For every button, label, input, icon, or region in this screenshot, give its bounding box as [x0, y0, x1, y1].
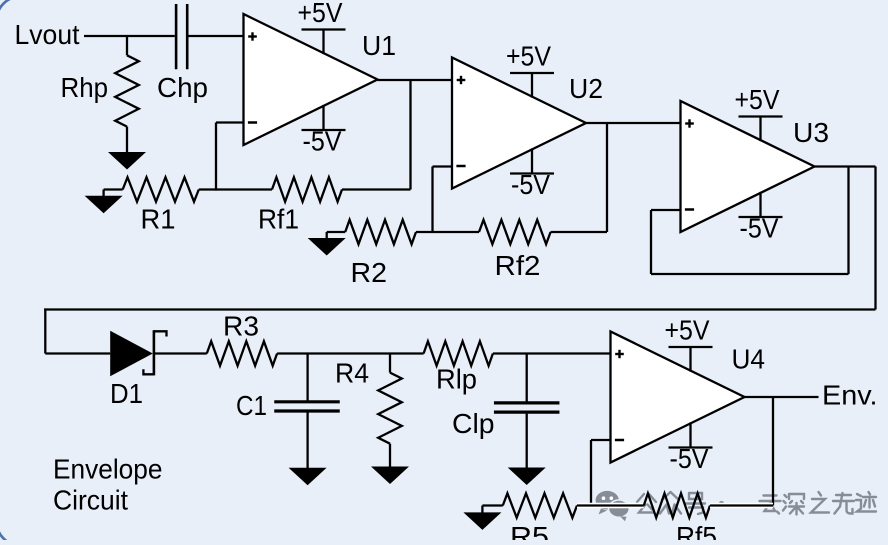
wire: [44, 308, 875, 310]
+5V supply: [665, 315, 713, 372]
svg-text:R2: R2: [351, 257, 388, 288]
wire: [651, 209, 681, 211]
net label Lvout: [15, 19, 80, 50]
svg-text:Rf5: Rf5: [676, 521, 717, 540]
wire: [45, 352, 110, 354]
svg-text:Rf1: Rf1: [258, 204, 299, 235]
ground: [308, 232, 346, 256]
svg-text:U3: U3: [793, 117, 829, 148]
svg-text:R3: R3: [223, 311, 259, 342]
wire: [590, 440, 592, 507]
op-amp U3: [681, 101, 830, 232]
-5V supply: [302, 105, 346, 157]
wire: [493, 352, 611, 354]
resistor Rlp: [424, 341, 493, 394]
svg-text:Chp: Chp: [157, 72, 208, 103]
+5V supply: [298, 0, 346, 54]
net label Env.: [822, 380, 878, 411]
capacitor Clp: [452, 354, 559, 440]
wire: [416, 231, 479, 233]
svg-text:U1: U1: [362, 30, 396, 61]
ground: [508, 414, 546, 485]
wire: [847, 167, 849, 275]
capacitor Chp: [157, 4, 208, 103]
op-amp U1: [244, 14, 397, 145]
wire: [591, 439, 611, 441]
svg-text:Rf2: Rf2: [495, 250, 541, 281]
svg-text:Rlp: Rlp: [436, 364, 477, 395]
svg-text:+5V: +5V: [298, 0, 343, 28]
wire: [277, 352, 424, 354]
wire: [874, 167, 876, 310]
svg-text:D1: D1: [110, 378, 143, 409]
op-amp U4: [611, 332, 766, 463]
svg-text:+5V: +5V: [665, 315, 710, 346]
svg-text:Env.: Env.: [822, 380, 878, 411]
wire: [189, 35, 244, 37]
svg-text:Envelope: Envelope: [53, 454, 163, 485]
+5V supply: [506, 41, 554, 98]
+5V supply: [735, 84, 783, 141]
svg-text:Lvout: Lvout: [15, 19, 80, 50]
resistor Rf2: [479, 220, 551, 281]
wire: [199, 188, 272, 190]
svg-text:R5: R5: [510, 521, 549, 540]
resistor R2: [345, 220, 416, 288]
wire: [433, 165, 453, 167]
wire: [650, 210, 652, 274]
caption Envelope Circuit: [53, 454, 163, 516]
svg-text:Rhp: Rhp: [61, 72, 109, 103]
svg-text:Clp: Clp: [452, 408, 495, 439]
watermark logo: [596, 491, 630, 521]
wire: [409, 80, 411, 190]
resistor Rf1: [258, 177, 342, 234]
wire: [431, 167, 433, 233]
svg-text:R4: R4: [335, 358, 369, 389]
svg-text:-5V: -5V: [740, 213, 779, 244]
resistor R1: [123, 177, 199, 234]
svg-text:Circuit: Circuit: [53, 485, 128, 516]
wire: [586, 122, 681, 124]
wire: [342, 188, 411, 190]
wire: [84, 35, 175, 37]
-5V supply: [510, 148, 554, 200]
ground: [289, 413, 327, 486]
wire: [215, 123, 217, 191]
resistor R3: [207, 311, 277, 366]
wire: [44, 308, 46, 353]
svg-text:U4: U4: [732, 344, 766, 375]
resistor R5: [503, 493, 577, 545]
resistor R4: [335, 354, 402, 444]
wire: [577, 503, 644, 509]
ground: [85, 190, 123, 214]
resistor Rf5: [644, 493, 717, 545]
wire: [651, 273, 849, 275]
wire: [216, 121, 244, 123]
wire: [815, 165, 876, 167]
resistor Rhp: [61, 36, 139, 127]
svg-text:-5V: -5V: [670, 443, 709, 474]
wire: [772, 397, 774, 506]
svg-text:U2: U2: [569, 73, 603, 104]
op-amp U2: [452, 58, 603, 189]
svg-text:-5V: -5V: [511, 169, 550, 200]
-5V supply: [739, 192, 783, 244]
svg-text:C1: C1: [236, 390, 267, 421]
diode D1: [110, 330, 167, 409]
svg-text:R1: R1: [141, 204, 176, 235]
wire: [745, 396, 819, 398]
wire: [551, 231, 607, 233]
svg-text:+5V: +5V: [506, 41, 551, 72]
svg-text:-5V: -5V: [303, 126, 342, 157]
ground: [371, 444, 409, 484]
ground: [463, 506, 502, 530]
wire: [378, 79, 453, 81]
wire: [155, 352, 207, 354]
wire: [606, 123, 608, 232]
svg-text:+5V: +5V: [735, 84, 780, 115]
ground: [108, 127, 146, 170]
watermark text: [637, 492, 876, 515]
-5V supply: [669, 422, 713, 474]
capacitor C1: [236, 354, 340, 422]
wire: [710, 503, 773, 509]
